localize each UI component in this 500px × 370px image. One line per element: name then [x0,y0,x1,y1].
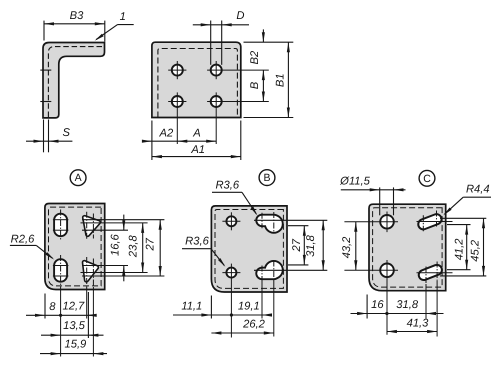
slot C upper crosshair [422,215,424,231]
dim 31,8 arrows B [322,220,325,230]
dim 45,2 arrows [482,218,485,228]
hole 3 top view [172,96,183,107]
plate bottom edge extension line [244,117,294,119]
hole 3 crosshair [176,92,178,144]
svg-text:12,7: 12,7 [63,301,86,313]
leader R4,4 arrow [443,208,451,216]
leader R3,6 lower line [182,248,211,250]
dim A2 arrow [142,140,152,143]
svg-text:31,8: 31,8 [305,234,317,257]
plate top edge extension line [244,41,294,43]
leader R2,6 arrow [45,252,54,259]
A ext plate left edge v [44,294,46,319]
dim 27 line [159,220,161,276]
C ext plate left v [366,295,368,319]
dim A1 line [152,156,241,158]
dim 16,6 arrows [122,220,125,230]
leader 1 arrow [95,34,104,41]
C ext line 45,2 bottom [440,275,486,277]
dim Ø11,5 line [341,189,406,191]
svg-text:27: 27 [144,237,156,251]
plate A body [45,204,105,290]
dim 41,2 arrows [465,225,468,235]
dim 41,3 arrows [387,330,397,333]
dim 43,2 arrows [354,222,357,232]
svg-text:43,2: 43,2 [341,236,353,259]
variant label C circle [419,170,435,186]
svg-text:C: C [423,173,431,185]
hole C lower-left [380,264,394,278]
dim 27 arrows [159,220,162,230]
C ext line 41,2 top [447,224,471,226]
hole C upper-left [380,215,394,229]
tilted slot C upper-right [418,214,441,229]
svg-text:B: B [263,172,270,184]
dim B1 arrows [287,42,290,52]
svg-text:Ø11,5: Ø11,5 [339,176,370,188]
svg-text:A: A [75,172,82,184]
svg-text:B3: B3 [70,10,84,22]
dim B3 extension line left [43,21,45,41]
dim 13,5 arrows [51,334,61,337]
dim 43,2 line [355,222,357,270]
dim D line [193,24,249,26]
B ext line 27 top [288,225,308,227]
triangle hole A lower [84,262,96,280]
leader R4,4 line [463,196,491,198]
svg-text:R4,4: R4,4 [466,183,490,195]
hole 2 crosshair [215,61,217,79]
dim 45,2 line [483,218,485,276]
dim 13,5 line [41,334,104,336]
dim 16 arrow [357,312,367,315]
dim B3 extension line right [104,21,106,42]
svg-text:D: D [236,10,244,22]
dim S arrow left [34,140,44,143]
B ext line 27 bottom [288,264,308,266]
svg-text:16: 16 [371,299,384,311]
lower hole center tick [40,101,51,103]
dim 8/12,7 line [26,314,96,316]
A ext line 27 bottom [82,275,164,277]
keyhole B upper crosshair [261,213,263,228]
leader 1 line [118,24,134,26]
keyhole slot B upper-right [266,216,282,232]
hole 4 crosshair [215,92,217,144]
plate B body [211,206,287,292]
dim 11,1 arrow [201,313,211,316]
dim B3 line [44,23,105,25]
hole 1 crosshair [176,61,178,79]
svg-text:R3,6: R3,6 [215,180,239,192]
dim S line [26,140,72,142]
dim 26,2 arrows [211,331,221,334]
leader R3,6 upper line [212,191,242,193]
dim A2/A line [142,140,216,142]
svg-text:8: 8 [49,301,56,313]
svg-text:41,3: 41,3 [407,317,430,329]
C ext line 41,2 bottom [447,269,471,271]
dim Ø11,5 arrows [370,188,380,191]
hole C upper-left crosshair [386,212,388,233]
svg-text:A: A [192,128,200,140]
dim B segment [262,70,264,101]
variant label B circle [259,170,275,186]
dim 19,1 arrow [262,313,272,316]
slot A upper [54,214,67,237]
slot C lower crosshair [425,267,427,285]
B ext line 31,8 top [254,219,327,221]
svg-text:45,2: 45,2 [470,239,482,262]
dim D arrow left [201,23,211,26]
A ext line 27 top [82,219,164,221]
plate right edge extension line v [240,121,242,161]
svg-text:R2,6: R2,6 [11,234,35,246]
plate left edge extension line v [151,121,153,161]
hole 4 top view [211,96,222,107]
upper hole center tick [40,69,51,71]
keyhole slot B lower-right [266,262,282,278]
svg-text:B1: B1 [274,73,286,87]
hole C lower-left crosshair [386,260,388,335]
svg-text:R3,6: R3,6 [185,236,209,248]
leader R2,6 line [10,244,36,246]
dim 27 arrows B [303,226,306,236]
plate top view hidden leg dashed line [158,49,238,118]
svg-text:A1: A1 [190,144,205,156]
junction dot 8/12,7 [59,314,62,317]
A ext 13,5 v [87,292,89,338]
junction dot 19,1 [230,313,233,316]
leader R3,6 lower arrow [218,258,225,267]
svg-text:B: B [249,81,261,89]
dim S extension lines [43,120,45,153]
triangle hole A lower crosshair [86,257,88,287]
dim 12,7 arrow [87,314,97,317]
svg-text:41,2: 41,2 [453,238,465,261]
svg-text:11,1: 11,1 [181,301,202,313]
hole B lower-left [226,268,236,278]
dim A arrows [177,140,187,143]
dim 16,6 stems [123,215,125,231]
hole B upper-left crosshair [230,212,232,230]
svg-text:15,9: 15,9 [65,339,87,351]
svg-text:13,5: 13,5 [63,320,86,332]
dim 11,1/19,1 line [173,314,272,316]
dim A1 arrows [152,155,162,158]
dim 26,2 line [211,332,273,334]
dim B3 arrow left [44,22,54,25]
svg-text:A2: A2 [159,128,174,140]
svg-text:16,6: 16,6 [110,233,122,256]
svg-text:S: S [62,127,70,139]
svg-text:26,2: 26,2 [242,319,266,331]
dim Ø11,5 ext lines [379,187,381,215]
dim B1 line [287,42,289,117]
side view sheet center dashed line [48,47,104,117]
dim 16/31,8 line [351,313,444,315]
C ext line 45,2 top [440,217,486,219]
variant label A circle [70,170,86,186]
hole B lower-left crosshair [230,264,232,338]
plate A hidden dashed outline [49,207,102,286]
junction dot 16/31,8 [385,312,388,315]
svg-text:1: 1 [120,11,126,23]
hole 2 top view [211,65,222,76]
dim 15,9 arrows [51,352,61,355]
svg-text:31,8: 31,8 [396,299,419,311]
triangle hole A upper crosshair [86,212,88,240]
dim D arrow right [222,23,232,26]
dim 23,8 line [142,223,144,273]
hole B upper-left [226,216,236,226]
tilted slot C lower-right [419,265,442,280]
leader R3,6 upper arrow [251,206,258,215]
svg-text:B2: B2 [249,50,261,64]
svg-text:23,8: 23,8 [128,235,140,259]
hole 1 top view [172,65,183,76]
dim 31,8 arrow C [426,312,436,315]
dim S arrow right [49,140,59,143]
slot A lower crosshair [60,255,62,287]
dim 41,2 line [466,225,468,270]
slot A lower [54,259,67,282]
triangle hole A upper [85,218,99,235]
plate C body [369,204,446,291]
dim B arrows [262,70,265,80]
A ext line 16,6 bottom [82,265,128,267]
svg-text:19,1: 19,1 [238,301,260,313]
B ext line 31,8 bottom [254,269,327,271]
dim 8 arrow [35,314,45,317]
dim 23,8 arrows [141,223,144,233]
B ext plate left v [210,296,212,319]
dim 31,8 line B [322,220,324,270]
plate top view body [152,42,241,117]
dim B3 arrow right [95,22,105,25]
angle bracket side view body [43,43,105,118]
dim 15,9 line [40,353,107,355]
dim D extension lines [210,21,212,65]
keyhole B lower crosshair [261,266,263,281]
svg-text:27: 27 [291,238,303,252]
A ext line 16,6 top [82,229,128,231]
plate C hidden dashed outline [373,208,443,287]
plate B hidden dashed outline [215,210,283,289]
dim B2 stem and arrow [262,29,264,42]
dim 27 line B [303,226,305,265]
dim 41,3 line [387,331,437,333]
slot A upper crosshair [60,210,62,241]
